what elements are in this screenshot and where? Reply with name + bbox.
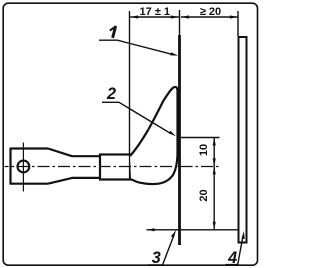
label 4 underline and leader <box>225 236 243 265</box>
label 1 arrow <box>170 52 178 55</box>
bar 4 <box>239 37 247 243</box>
extension line right of >=20 <box>237 11 239 36</box>
extension line top of 10 <box>181 137 220 139</box>
datum arrow <box>147 228 155 231</box>
blade (curved hook part 2) <box>130 87 178 184</box>
label 2 arrow <box>169 131 176 137</box>
arrow left of 17+-1 <box>130 15 138 18</box>
arrow up of 20 <box>213 166 216 174</box>
svg-text:20: 20 <box>198 189 210 201</box>
arrow down of 10 <box>213 158 216 166</box>
dimension line 17+-1 <box>130 16 179 18</box>
panel line 1/3 <box>178 35 181 245</box>
datum line bottom of 20 <box>147 229 239 231</box>
extension line left of 17+-1 <box>129 11 131 156</box>
centerline (horizontal dash-dot axis) <box>5 166 100 168</box>
arrow up of 10 <box>213 138 216 146</box>
centerline over blade <box>99 166 220 168</box>
tool head outline <box>11 149 101 184</box>
panel extension line (thin top part) <box>179 10 181 35</box>
svg-text:≥ 20: ≥ 20 <box>200 6 221 18</box>
hole vertical centerline <box>22 143 24 192</box>
ferrule <box>100 155 130 180</box>
dimension line 20 <box>213 166 215 229</box>
dimension line >=20 <box>181 16 238 18</box>
label 3 arrow <box>171 230 176 238</box>
svg-text:17 ± 1: 17 ± 1 <box>140 6 171 18</box>
arrow down of 20 <box>213 222 216 230</box>
label 4 arrow <box>242 231 245 239</box>
border frame <box>3 3 257 265</box>
label 1 underline and leader <box>99 40 172 54</box>
label 3 underline and leader <box>148 235 174 266</box>
hole circle <box>18 161 30 173</box>
dimension line 10 <box>213 138 215 167</box>
label 2 underline and leader <box>102 102 170 133</box>
arrow left of >=20 <box>181 15 189 18</box>
label 1 <box>110 26 116 30</box>
svg-text:2: 2 <box>106 85 116 103</box>
svg-text:10: 10 <box>198 144 210 156</box>
arrow right of 17+-1 <box>171 15 179 18</box>
arrow right of >=20 <box>230 15 238 18</box>
